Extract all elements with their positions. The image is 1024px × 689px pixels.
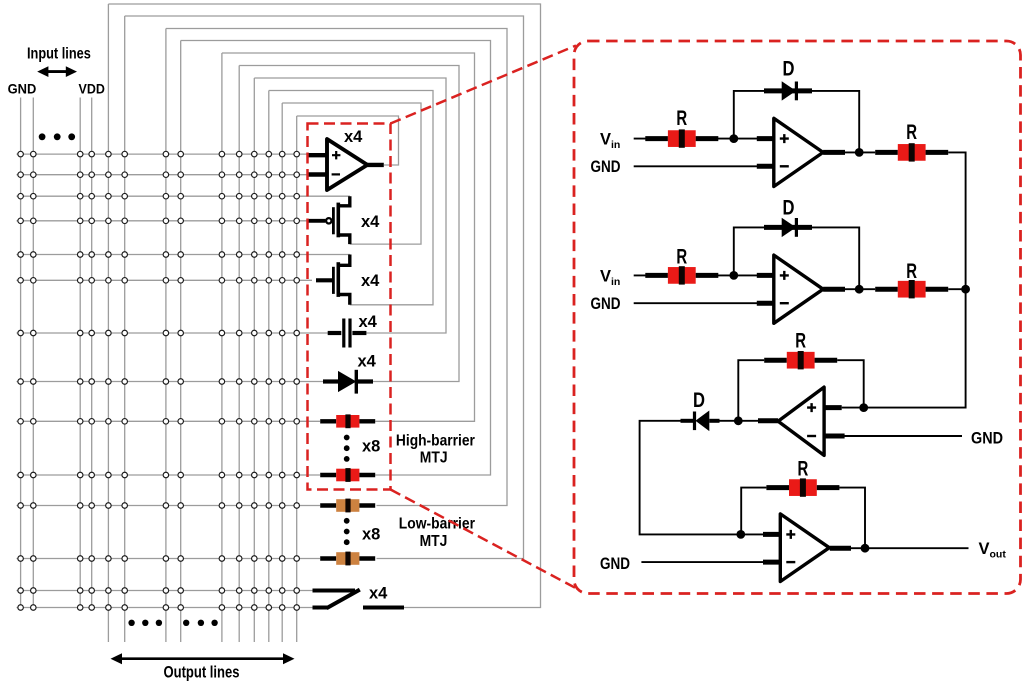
wire: Vin to R3 stage 2 xyxy=(634,274,650,276)
wire: crossbar horizontal row lines xyxy=(17,154,351,607)
svg-text:GND: GND xyxy=(591,158,621,176)
ellipsis dots: high-barrier MTJ stack xyxy=(344,435,350,462)
svg-text:R: R xyxy=(676,245,687,269)
svg-text:x4: x4 xyxy=(369,585,388,603)
node A1: R1 output / feedback tap xyxy=(729,134,738,143)
resistor R2 (stage 1 output) xyxy=(875,143,948,161)
resistor R5 (stage 3 feedback) xyxy=(764,351,837,369)
wire: GND to stage 4 inverting input xyxy=(641,561,780,563)
svg-text:GND: GND xyxy=(8,82,37,97)
annotation: zoom guide line bottom xyxy=(391,490,578,590)
wire: bus down to stage 3 non-inverting input xyxy=(842,289,966,407)
svg-text:x8: x8 xyxy=(362,526,380,544)
node A2: R3 output / feedback tap xyxy=(729,271,738,280)
node C2: summing bus junction xyxy=(961,285,970,294)
wire: feedback loop stage 2 xyxy=(734,227,859,289)
node: crossbar junction circles xyxy=(18,151,300,610)
arrow: output lines double arrow xyxy=(111,653,295,664)
diode D1 (stage 1 feedback) xyxy=(770,81,810,100)
svg-text:GND: GND xyxy=(591,295,621,313)
svg-text:Input lines: Input lines xyxy=(27,46,91,63)
resistor: high-barrier MTJ (top of x8 stack) xyxy=(320,414,375,428)
node A3: stage 3 output / feedback tap xyxy=(734,416,743,425)
svg-text:Vin: Vin xyxy=(600,267,620,288)
node C3: stage 3 non-inverting node xyxy=(859,403,868,412)
wire: GND line stage 1 xyxy=(634,165,774,167)
svg-text:GND: GND xyxy=(600,555,630,573)
resistor: low-barrier MTJ (bottom of x8 stack) xyxy=(320,552,375,566)
svg-text:MTJ: MTJ xyxy=(420,450,448,467)
op-amp U4 (stage 3, output on left) xyxy=(778,387,824,455)
annotation: red dashed zoom source box xyxy=(308,124,391,490)
resistor R4 (stage 2 output) xyxy=(875,280,948,298)
switch SW1 (x4) xyxy=(313,590,405,609)
svg-text:R: R xyxy=(798,457,809,481)
svg-text:x4: x4 xyxy=(361,272,380,290)
wire: feedback loop stage 3 xyxy=(738,360,764,421)
wire: stage 4 + input stub xyxy=(741,533,780,535)
svg-text:x4: x4 xyxy=(359,313,378,331)
annotation: big red dashed detail box xyxy=(574,41,1021,594)
resistor R3 (stage 2 input) xyxy=(645,266,718,284)
diode D2 (stage 2 feedback) xyxy=(770,218,810,237)
wire: R1 to op-amp U2 non-inverting input xyxy=(718,138,774,140)
wire: stage 3 + input stub xyxy=(824,405,842,410)
diode D1 (x4) xyxy=(323,370,373,394)
wire: feedback loop stage 1 xyxy=(734,91,859,152)
transistor Q2 (NMOS, x4) xyxy=(316,255,350,305)
op-amp U3 (stage 2) xyxy=(774,255,823,323)
resistor R6 (stage 4 feedback) xyxy=(766,478,839,496)
capacitor C1 (x4) xyxy=(328,319,367,348)
svg-text:Low-barrier: Low-barrier xyxy=(399,516,475,533)
ellipsis dots: output columns xyxy=(128,620,217,626)
wire: D3 down to stage 4 input xyxy=(640,421,741,535)
svg-text:Vin: Vin xyxy=(600,131,620,152)
wire: U4 output to diode D3 xyxy=(717,420,778,422)
op-amp U1 (x4 column amplifier) xyxy=(308,139,384,190)
wire: R4 to inter-stage bus xyxy=(948,288,965,290)
resistor: low-barrier MTJ (top of x8 stack) xyxy=(320,499,375,513)
svg-text:MTJ: MTJ xyxy=(420,533,448,550)
svg-text:D: D xyxy=(693,388,705,412)
arrow: input lines double arrow xyxy=(37,66,77,77)
wire: feedback loop stage 4 xyxy=(741,488,766,535)
wire: crossbar output column lines rising into nested loops xyxy=(108,4,296,642)
svg-text:VDD: VDD xyxy=(79,82,106,97)
node B2: stage 2 output xyxy=(855,285,864,294)
annotation: zoom guide line top xyxy=(391,46,577,124)
wire: Vin to R1 stage 1 xyxy=(634,138,650,140)
svg-text:x4: x4 xyxy=(358,353,377,371)
node B4: output node xyxy=(861,544,870,553)
diode D3 (stage 3, pointing left) xyxy=(681,411,720,432)
op-amp U5 (stage 4) xyxy=(780,514,829,582)
ellipsis dots: input columns xyxy=(39,133,75,140)
svg-text:x8: x8 xyxy=(362,438,380,456)
wire: R2 to inter-stage bus xyxy=(948,152,965,289)
svg-text:R: R xyxy=(795,329,806,353)
resistor: high-barrier MTJ (bottom of x8 stack) xyxy=(320,468,375,482)
svg-text:R: R xyxy=(906,120,917,144)
svg-text:R: R xyxy=(676,106,687,130)
svg-text:Vout: Vout xyxy=(979,540,1007,561)
node B1: stage 1 output xyxy=(855,148,864,157)
transistor Q1 (PMOS, x4) xyxy=(308,196,350,244)
wire: U2 output to R2 xyxy=(823,151,875,153)
ellipsis dots: low-barrier MTJ stack xyxy=(344,518,350,545)
svg-text:Output lines: Output lines xyxy=(164,664,240,682)
resistor R1 (stage 1 input) xyxy=(645,129,718,147)
svg-text:D: D xyxy=(783,196,795,220)
node A4: stage 4 non-inverting node xyxy=(736,530,745,539)
wire: U3 output to R4 xyxy=(823,288,875,290)
svg-text:x4: x4 xyxy=(361,213,380,231)
wire: stage 3 - input to GND xyxy=(824,435,962,437)
svg-text:R: R xyxy=(906,259,917,283)
op-amp U2 (stage 1) xyxy=(774,118,823,186)
svg-text:High-barrier: High-barrier xyxy=(396,432,475,449)
wire: GND line stage 2 xyxy=(634,302,774,304)
wire: nested rectangle loops connecting columns to peripheral devices xyxy=(108,4,540,608)
wire: R3 to op-amp U3 non-inverting input xyxy=(718,274,774,276)
wire: crossbar input column lines (GND and VDD pairs) xyxy=(21,98,92,608)
svg-text:D: D xyxy=(783,57,795,81)
wire: U5 output to Vout xyxy=(830,547,969,549)
svg-text:x4: x4 xyxy=(344,128,363,146)
svg-text:GND: GND xyxy=(971,430,1003,448)
